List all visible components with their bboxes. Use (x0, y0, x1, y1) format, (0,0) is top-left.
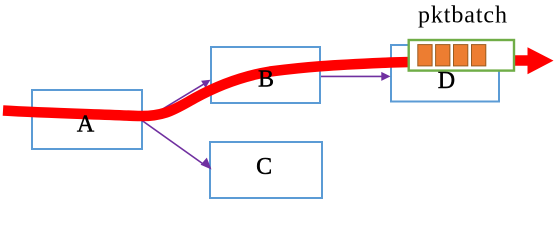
svg-text:B: B (258, 67, 274, 93)
svg-text:C: C (256, 154, 272, 180)
packet square 1 (418, 45, 432, 66)
svg-text:pktbatch: pktbatch (418, 3, 508, 29)
pktbatch green box (409, 40, 514, 71)
arrow A to B (142, 80, 211, 122)
arrow B to D (321, 72, 391, 81)
svg-text:D: D (438, 68, 455, 94)
red flow curve (3, 61, 528, 117)
box D (391, 45, 499, 102)
arrow A to C (142, 121, 212, 170)
box B (211, 47, 320, 103)
box A (32, 90, 142, 149)
packet square 3 (454, 45, 468, 66)
packet square 4 (472, 45, 486, 66)
svg-text:A: A (77, 111, 95, 137)
box C (210, 142, 322, 198)
red exit arrowhead (528, 47, 554, 74)
packet square 2 (436, 45, 450, 66)
